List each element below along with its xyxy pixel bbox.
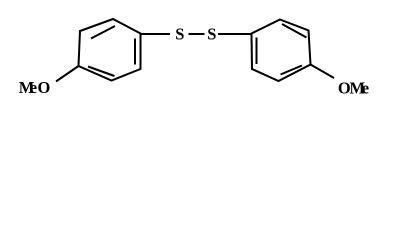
right ring double bond inner line (left edge): [256, 38, 258, 65]
bond C-O to MeO: [56, 66, 79, 82]
bond C'-O to OMe: [311, 65, 335, 79]
left ring double bond inner line (bottom edge): [88, 67, 115, 77]
atom label MeO: [19, 78, 51, 97]
svg-text:S: S: [207, 25, 216, 44]
right benzene ring outline: [252, 20, 311, 82]
atom label OMe: [338, 79, 369, 98]
bond S1-S2: [189, 33, 205, 35]
bond S2 to right ring: [218, 33, 251, 35]
svg-text:S: S: [175, 25, 184, 44]
left benzene ring outline: [79, 19, 141, 81]
svg-text:e: e: [30, 78, 37, 97]
left ring double bond inner line (right edge): [134, 39, 136, 65]
svg-text:e: e: [362, 79, 369, 98]
right ring double bond inner line (top edge): [282, 24, 307, 38]
bond ring to S1: [141, 33, 170, 35]
left ring double bond inner line (top edge): [91, 26, 115, 39]
svg-text:O: O: [38, 78, 51, 97]
right ring double bond inner line (bottom edge): [281, 66, 303, 75]
